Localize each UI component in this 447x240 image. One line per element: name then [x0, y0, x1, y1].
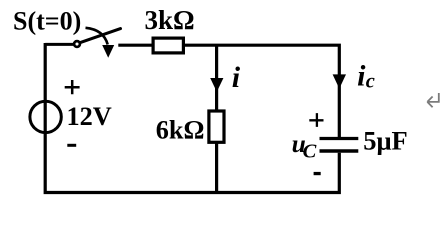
wire: top-left stub from left rail to switch contact: [45, 43, 73, 46]
capacitor C1 bottom plate: [320, 149, 359, 152]
svg-text:3kΩ: 3kΩ: [145, 5, 195, 35]
paragraph return mark: [427, 93, 439, 107]
svg-text:c: c: [366, 71, 375, 93]
current arrow i (middle branch): [210, 78, 223, 92]
wire: middle branch upper segment: [215, 44, 218, 110]
resistor R2 6kΩ body: [209, 111, 224, 142]
wire: middle branch lower segment: [215, 144, 218, 193]
capacitor plus sign: [309, 113, 323, 127]
capacitor minus sign: [314, 172, 321, 175]
wire: top rail from switch to top-right corner and down to capacitor: [118, 44, 339, 139]
wire: left rail, bottom rail, lower right rail (node loop): [44, 43, 340, 194]
voltage source U1 circle: [30, 101, 61, 132]
switch S closing-motion arrowhead: [102, 45, 114, 58]
svg-text:C: C: [303, 140, 317, 162]
switch S contact circle: [74, 41, 80, 47]
capacitor C1 top plate: [320, 137, 359, 140]
resistor R1 3kΩ body: [153, 38, 183, 53]
svg-text:i: i: [232, 61, 241, 94]
switch S blade: [81, 29, 121, 43]
svg-text:5μF: 5μF: [363, 125, 407, 155]
voltage source minus sign: [67, 144, 76, 147]
svg-text:i: i: [357, 60, 366, 93]
svg-text:6kΩ: 6kΩ: [156, 116, 205, 145]
svg-text:12V: 12V: [67, 102, 112, 131]
switch S closing-motion arc: [86, 28, 108, 45]
svg-text:S(t=0): S(t=0): [13, 6, 81, 35]
voltage source plus sign: [65, 80, 80, 94]
current arrow ic (right branch): [333, 74, 346, 88]
